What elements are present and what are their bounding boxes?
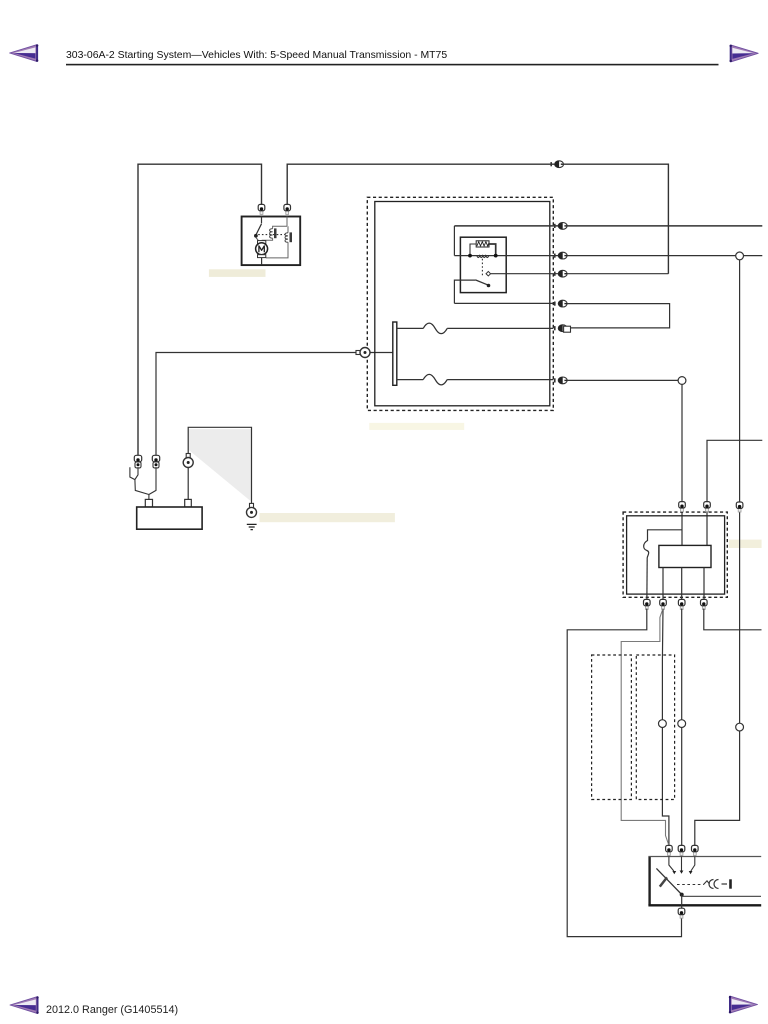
central junction box solid outline (375, 202, 550, 406)
fusible link lower wire (646, 558, 648, 609)
ground symbol (247, 524, 257, 529)
relay module bottom pin 1 (644, 599, 651, 609)
wire: starter solenoid S to relay output (287, 164, 668, 274)
relay switch arm (475, 280, 487, 285)
nav arrow top left (10, 44, 39, 61)
header rule (66, 64, 719, 66)
ring connector at ground point (247, 503, 257, 517)
starter relay box (460, 237, 506, 292)
highlight bar right of relay module (729, 540, 762, 548)
fuse bus bar (393, 322, 397, 385)
wire from page edge to relay module pin (707, 440, 762, 545)
relay module solid outline (627, 516, 725, 594)
wire: battery positive feed to junction box (156, 353, 393, 456)
wire: battery positive to starter B+ (138, 164, 262, 455)
battery terminal negative (185, 499, 192, 507)
relay module dashed outline (623, 512, 727, 597)
CJB pin 5 square (564, 326, 571, 332)
page footer text (46, 1004, 178, 1016)
wire module pin1 long loop to ignition feed (567, 609, 681, 937)
battery box (137, 507, 202, 529)
starter solenoid actuation dotted line (258, 234, 285, 236)
relay coil (477, 256, 489, 258)
relay module internal branch (648, 530, 683, 541)
wire pin6 to relay module (567, 379, 678, 381)
bullet connector battery wire 2 (152, 455, 159, 468)
fuse 1 (397, 323, 554, 334)
battery terminal positive (145, 499, 152, 507)
ignition output wire to junction dot (681, 895, 683, 909)
highlight bar under central junction box (369, 423, 464, 430)
CJB pin 3 (554, 270, 567, 277)
wire module pin4 to page edge (704, 609, 762, 630)
highlight bar right of ground (260, 513, 395, 522)
lower dashed box B (636, 655, 674, 800)
central junction box dashed outline (367, 197, 553, 410)
battery ground side wire to chassis ground (188, 427, 251, 507)
ring connector battery feed at box edge (356, 348, 370, 358)
relay coil row wire (454, 255, 762, 257)
long wire from pin2 ring to ignition switch (695, 260, 740, 846)
relay module bottom pin 2 (660, 599, 667, 609)
highlight bar under starter (209, 269, 266, 277)
junction dot right (494, 254, 498, 258)
CJB pin 2 (554, 252, 567, 259)
junction ring on pin6 wire (678, 377, 686, 385)
starter motor ground wire (261, 258, 263, 265)
starter internal switch (256, 217, 261, 235)
gray branch wire module pin2 (621, 609, 669, 846)
relay module top pin 2 (704, 502, 711, 512)
nav arrow top right (730, 45, 759, 62)
ignition switch arm (656, 868, 681, 894)
relay switch common wire (454, 280, 475, 303)
relay module top pin 1 (679, 502, 686, 512)
junction ring on pin2 run (736, 252, 744, 260)
nav arrow bottom left (10, 996, 39, 1013)
nav arrow bottom right (729, 996, 758, 1013)
relay pin 1 wire (454, 225, 762, 227)
relay module inner block (659, 545, 711, 567)
ignition switch output pin (678, 908, 685, 918)
CJB pin 1 (554, 223, 567, 230)
junction ring on pin3 drop (678, 720, 686, 728)
ignition contact stubs (669, 857, 695, 872)
ignition key linkage dashed (677, 884, 704, 886)
junction dot left (468, 254, 472, 258)
wire module pin2 to ignition pin1 (662, 609, 669, 846)
ignition key symbol (709, 880, 719, 889)
wire: stub and battery positive terminal joins (130, 467, 156, 500)
starter pin connector 2 (284, 204, 291, 214)
fuse 2 (397, 374, 554, 385)
relay actuation dotted line (481, 259, 483, 277)
CJB pin 5 (554, 325, 567, 332)
wire module pin3 to ignition pin2 (681, 609, 683, 846)
ignition switch pin 3 (692, 845, 699, 855)
fusible link squiggle (644, 541, 649, 558)
starter pin connector 1 (258, 204, 265, 214)
relay coil feed wire L (453, 226, 455, 256)
relay module block output wires (663, 568, 704, 609)
relay contact diamond (486, 271, 491, 276)
relay pin 4 wire (454, 302, 553, 304)
junction ring on long right wire (736, 723, 744, 731)
CJB pin 4 (554, 300, 567, 307)
starter motor M (258, 241, 266, 244)
lower dashed box A (592, 655, 632, 800)
inline pin on bypass wire (736, 502, 743, 512)
ring connector on battery negative wire (183, 454, 193, 468)
relay resistor (476, 241, 489, 247)
page header title text (66, 50, 447, 61)
ignition switch housing (648, 857, 650, 906)
ignition switch pin 1 (666, 845, 673, 855)
gray shading quad near battery (188, 429, 251, 501)
wire pin4 to pin5 U loop (567, 304, 670, 328)
relay contact output wire (491, 273, 669, 275)
starter solenoid hold-in coil (287, 226, 289, 232)
bullet connector battery wire 1 (134, 455, 141, 468)
wire ring down to relay module pin (681, 384, 683, 545)
ignition switch pin 2 (678, 845, 685, 855)
relay module bottom pin 3 (678, 599, 685, 609)
junction ring on pin2 drop (659, 720, 667, 728)
inline connector on solenoid wire (550, 161, 563, 168)
CJB pin 6 (554, 377, 567, 384)
starter motor box (242, 217, 301, 266)
relay module bottom pin 4 (701, 599, 708, 609)
starter solenoid pull-in coil (273, 217, 287, 229)
